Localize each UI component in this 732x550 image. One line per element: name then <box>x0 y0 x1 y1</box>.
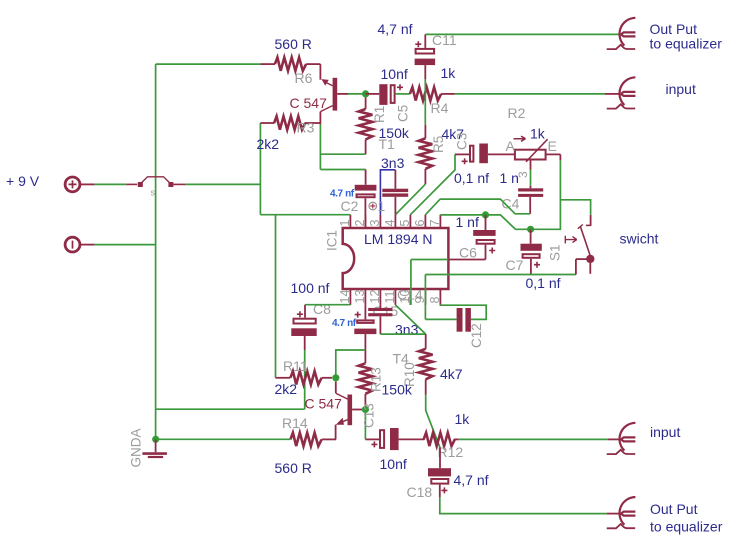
wire plus terminal to switch <box>95 183 127 185</box>
pin 5 stub <box>409 215 411 228</box>
svg-text:R12: R12 <box>438 444 464 460</box>
svg-text:LM 1894 N: LM 1894 N <box>364 231 432 247</box>
wire pin9 long to switch bottom <box>425 275 576 320</box>
resistor R11 2k2 <box>276 371 333 384</box>
connector input bottom <box>607 423 636 454</box>
wire C11 to output connector <box>425 33 621 35</box>
svg-text:100 nf: 100 nf <box>291 280 330 296</box>
pin 14 stub <box>349 289 351 305</box>
resistor R14 560R <box>290 433 336 446</box>
pin 10 stub <box>409 289 411 305</box>
wire gnd to R14 <box>156 438 291 440</box>
capacitor C3 0,1nf <box>455 144 488 165</box>
svg-text:1 n: 1 n <box>500 170 519 186</box>
svg-text:Out Put: Out Put <box>650 501 698 517</box>
wire left ground rail vertical <box>155 64 157 439</box>
wire R4 to input connector <box>455 93 605 95</box>
svg-text:C7: C7 <box>506 257 524 273</box>
svg-text:C13: C13 <box>362 403 377 428</box>
svg-text:C6: C6 <box>459 245 477 261</box>
capacitor C12 <box>457 308 471 332</box>
name C1 circled plus <box>369 198 386 214</box>
wire pin5 diagonal to C3 <box>410 154 455 214</box>
wire C18 to output connector <box>440 497 607 514</box>
svg-text:R6: R6 <box>295 70 313 86</box>
svg-text:1k: 1k <box>441 65 457 81</box>
wire branch down to R11 <box>275 215 277 378</box>
wire C11 down crossing R4 to R5 <box>424 79 426 125</box>
resistor R13 150k <box>359 363 373 406</box>
wire R10 to C18 steep diagonal <box>426 395 440 448</box>
svg-text:2k2: 2k2 <box>275 381 298 397</box>
svg-text:R5: R5 <box>431 136 446 153</box>
svg-text:10nf: 10nf <box>380 456 407 472</box>
label 1k R2 with arrow <box>514 126 546 142</box>
svg-text:R11: R11 <box>283 358 308 374</box>
capacitor C8 100nf <box>291 305 316 350</box>
svg-text:1 nf: 1 nf <box>456 214 479 230</box>
svg-text:12: 12 <box>368 290 382 304</box>
pin 13 stub <box>364 289 366 305</box>
svg-text:1k: 1k <box>530 126 546 142</box>
pin 11 stub <box>394 289 396 305</box>
svg-text:to equalizer: to equalizer <box>650 519 723 535</box>
capacitor C18 4,7nf <box>428 448 451 497</box>
wire C8 down to ground row <box>304 350 306 409</box>
svg-text:13: 13 <box>353 290 367 304</box>
capacitor C1 3n3 <box>382 170 408 215</box>
svg-text:to equalizer: to equalizer <box>650 36 723 52</box>
wire base node down to C13 <box>364 410 366 440</box>
svg-text:5: 5 <box>398 220 412 227</box>
svg-text:6: 6 <box>413 220 427 227</box>
wire collector to C2 top <box>320 169 365 171</box>
svg-text:4,7 nf: 4,7 nf <box>454 472 489 488</box>
svg-text:C2: C2 <box>341 198 359 214</box>
svg-text:C14: C14 <box>397 287 423 303</box>
wire C6 inside IC to pin10 <box>411 260 449 305</box>
capacitor C11 4,7nf <box>415 34 436 79</box>
ground GNDA symbol <box>142 439 167 457</box>
wire pin8 to C12 <box>440 305 486 320</box>
svg-text:7: 7 <box>428 220 442 227</box>
svg-text:4,7 nf: 4,7 nf <box>378 21 413 37</box>
capacitor C2 4.7nf <box>355 170 377 229</box>
transistor T4 C547 <box>336 382 363 440</box>
terminal minus <box>65 237 95 252</box>
svg-text:150k: 150k <box>382 382 413 398</box>
wire C14 to R10 top <box>380 333 425 335</box>
svg-text:R1: R1 <box>372 106 387 123</box>
resistor R12 1k <box>424 433 459 446</box>
svg-text:GNDA: GNDA <box>128 428 143 467</box>
resistor R4 1k <box>410 87 455 100</box>
connector output bottom <box>607 497 636 528</box>
wire R2 wiper to C4 <box>530 170 532 186</box>
svg-text:C8: C8 <box>313 301 331 317</box>
svg-text:3: 3 <box>368 220 382 227</box>
capacitor C7 0,1nf <box>521 229 542 274</box>
svg-text:input: input <box>650 424 680 440</box>
capacitor C6 1nf <box>448 215 495 260</box>
connector output top <box>607 18 636 49</box>
capacitor C13 10nf <box>365 428 424 450</box>
svg-text:C5: C5 <box>396 105 411 122</box>
svg-text:+ 9 V: + 9 V <box>6 173 40 189</box>
svg-text:10nf: 10nf <box>381 66 408 82</box>
svg-text:s: s <box>151 188 156 198</box>
node R11 junction <box>332 374 339 381</box>
svg-text:C3: C3 <box>455 133 470 150</box>
pin 4 stub <box>394 215 396 228</box>
svg-text:input: input <box>666 81 696 97</box>
svg-text:560 R: 560 R <box>275 460 312 476</box>
svg-text:S1: S1 <box>548 244 563 261</box>
pin 9 stub <box>424 289 426 305</box>
svg-text:11: 11 <box>383 290 397 303</box>
svg-text:swicht: swicht <box>620 231 659 247</box>
terminal +9V plus <box>65 177 95 192</box>
node C6 top junction <box>482 211 489 218</box>
capacitor C15 4.7nf <box>354 305 376 363</box>
wire minus terminal to rail <box>95 244 156 246</box>
svg-text:4.7 nf: 4.7 nf <box>332 318 357 329</box>
wire collector to R1 bottom <box>320 153 365 155</box>
node T1 base junction <box>362 90 369 97</box>
pin 3 stub <box>379 215 381 228</box>
svg-text:14: 14 <box>338 290 352 304</box>
switch S1 <box>565 215 594 275</box>
svg-text:A: A <box>506 138 516 154</box>
transistor T1 C547 <box>320 64 348 124</box>
potentiometer R2 1k <box>515 139 561 169</box>
svg-text:R4: R4 <box>431 100 449 116</box>
pin 1 stub <box>349 215 351 228</box>
svg-text:1: 1 <box>338 220 352 227</box>
resistor R3 2k2 <box>260 116 320 129</box>
pin 12 stub <box>379 289 381 305</box>
node T4 base junction <box>362 406 369 413</box>
svg-text:0,1 nf: 0,1 nf <box>454 170 489 186</box>
svg-text:4k7: 4k7 <box>440 366 463 382</box>
wire C5 to R4 <box>396 93 410 95</box>
wire T1 base to node <box>348 93 366 95</box>
wire ground rail top to R6 <box>156 63 261 65</box>
svg-text:R14: R14 <box>282 415 308 431</box>
svg-text:C 547: C 547 <box>305 396 343 412</box>
capacitor C4 1n <box>518 188 543 214</box>
svg-text:8: 8 <box>428 297 442 304</box>
resistor R1 150k <box>359 98 373 155</box>
node GNDA junction <box>152 436 159 443</box>
svg-text:3n3: 3n3 <box>381 155 405 171</box>
svg-text:R2: R2 <box>508 105 526 121</box>
connector input top <box>607 77 636 108</box>
wire supply vertical x260 <box>259 123 261 215</box>
wire collector node vertical <box>319 124 321 169</box>
wire R5 to pin4 diagonal <box>395 184 425 215</box>
svg-text:R3: R3 <box>297 120 315 136</box>
svg-text:560 R: 560 R <box>275 36 312 52</box>
pin 8 stub <box>439 289 441 305</box>
svg-text:IC1: IC1 <box>325 230 340 251</box>
resistor R5 4k7 <box>419 125 433 184</box>
wire T4 base to node <box>363 409 366 411</box>
svg-text:C12: C12 <box>469 323 484 348</box>
svg-text:C 547: C 547 <box>290 95 328 111</box>
node C7 top junction <box>527 226 534 233</box>
resistor R10 4k7 <box>419 334 433 394</box>
pin 2 stub <box>364 215 366 228</box>
wire node to C5 <box>366 93 380 95</box>
svg-text:E: E <box>548 138 557 154</box>
svg-text:1k: 1k <box>455 411 471 427</box>
wire pin14 to C8 <box>305 304 350 306</box>
pin 7 stub <box>439 215 441 228</box>
IC LM1894N body <box>343 228 449 289</box>
wire pin7 to C6 C7 R2E path <box>440 160 560 229</box>
wire blue pin3 to C1 <box>380 170 395 215</box>
svg-text:C18: C18 <box>407 484 433 500</box>
switch supply <box>126 177 185 187</box>
wire C3 to R2 <box>488 153 515 155</box>
resistor R6 560R <box>260 57 320 70</box>
wire pin11 diagonal <box>395 305 425 334</box>
wire pin6 to C4 path <box>425 199 530 215</box>
capacitor C14 3n3 <box>368 305 392 334</box>
wire switch to R3 corner <box>186 183 261 185</box>
pin 6 stub <box>424 215 426 228</box>
capacitor C5 10nf <box>379 84 403 105</box>
svg-text:0,1 nf: 0,1 nf <box>526 275 561 291</box>
svg-text:4: 4 <box>383 220 397 227</box>
wire ground row horizontal <box>156 408 305 410</box>
svg-text:2k2: 2k2 <box>257 136 280 152</box>
wire R11 node up to C15 tee <box>336 350 366 378</box>
wire R12 to input connector <box>459 438 608 440</box>
wire tee to switch <box>560 200 590 215</box>
svg-text:1: 1 <box>378 198 386 214</box>
wire supply to pin1 <box>260 214 350 216</box>
svg-text:T1: T1 <box>379 136 396 152</box>
